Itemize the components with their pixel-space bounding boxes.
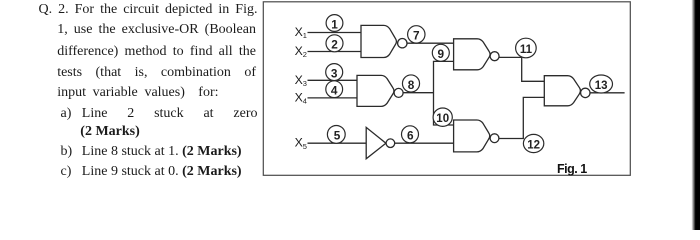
svg-text:7: 7 [413,29,420,43]
svg-text:3: 3 [331,66,338,80]
svg-text:5: 5 [334,129,341,143]
svg-text:6: 6 [407,129,414,143]
svg-text:X4: X4 [295,90,307,105]
svg-text:4: 4 [331,83,338,97]
svg-text:13: 13 [595,80,608,92]
svg-text:X1: X1 [295,25,307,40]
svg-text:X5: X5 [295,136,307,151]
svg-text:8: 8 [408,78,415,92]
svg-text:10: 10 [436,113,449,125]
svg-text:1: 1 [331,17,338,31]
svg-text:9: 9 [438,47,445,61]
svg-text:X2: X2 [295,44,307,59]
svg-text:2: 2 [331,38,338,52]
svg-text:X3: X3 [295,73,307,88]
svg-text:Fig. 1: Fig. 1 [557,162,587,176]
svg-text:11: 11 [520,44,533,56]
svg-text:12: 12 [527,139,540,151]
